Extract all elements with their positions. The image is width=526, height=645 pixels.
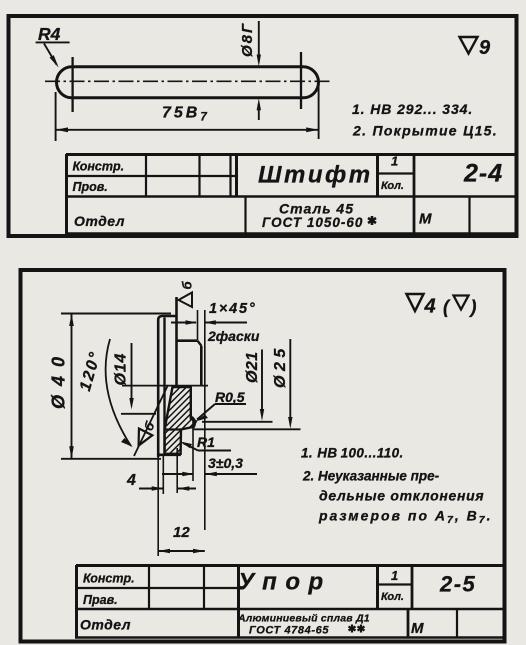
svg-text:Пров.: Пров. (73, 180, 108, 194)
dimension Ø40 (61, 313, 171, 315)
svg-text:R1: R1 (197, 434, 215, 450)
svg-text:9: 9 (479, 37, 491, 59)
dimension Ø25 (289, 339, 291, 422)
svg-text:М: М (411, 620, 424, 637)
svg-text:1. НВ 292... 334.: 1. НВ 292... 334. (352, 101, 473, 117)
svg-text:ГОСТ 4784-65: ГОСТ 4784-65 (249, 625, 329, 637)
surface finish mark ∇9 (460, 37, 478, 54)
centerline pin axis (45, 80, 330, 82)
frame drawing 2 (21, 270, 505, 642)
dimension 1×45° (197, 310, 199, 340)
svg-text:Отдел: Отдел (74, 213, 125, 229)
svg-text:Ø21: Ø21 (244, 352, 261, 383)
flange bottom edge (158, 453, 181, 456)
svg-text:Отдел: Отдел (80, 617, 131, 633)
dimension 3±0.3 (192, 420, 194, 481)
svg-text:Констр.: Констр. (73, 160, 125, 174)
svg-text:2-4: 2-4 (463, 160, 503, 188)
svg-text:2. Покрытие Ц15.: 2. Покрытие Ц15. (352, 123, 498, 139)
wire tangent line right (300, 52, 302, 109)
dimension 120° arc (106, 339, 131, 446)
svg-text:Алюминиевый сплав Д1: Алюминиевый сплав Д1 (237, 613, 370, 625)
dimension 75В7 (55, 92, 57, 141)
svg-text:1: 1 (391, 154, 398, 169)
cone surface extension line with ∇б (134, 385, 168, 456)
svg-text:1×45°: 1×45° (209, 301, 256, 317)
svg-text:1. НВ 100...110.: 1. НВ 100...110. (301, 446, 404, 461)
svg-text:1: 1 (391, 568, 398, 583)
dimension Ø21 (261, 350, 263, 415)
svg-text:ГОСТ 1050-60: ГОСТ 1050-60 (262, 215, 363, 230)
svg-text:R4: R4 (38, 24, 61, 44)
svg-text:): ) (469, 297, 477, 317)
svg-text:Прав.: Прав. (83, 593, 118, 607)
chamfer edge (198, 341, 202, 346)
frame drawing 1 (9, 16, 517, 236)
hatched section (boot shape) (165, 387, 196, 454)
part: flange silhouette left face (158, 316, 177, 457)
leader R4 (36, 42, 70, 64)
wire tangent line left (71, 57, 73, 112)
body right face (200, 346, 203, 386)
title block 2 lines (75, 565, 504, 638)
groove step edge (165, 428, 181, 430)
svg-text:размеров по А7, В7.: размеров по А7, В7. (318, 508, 492, 527)
svg-text:12: 12 (173, 524, 190, 541)
dimension 12 (158, 550, 205, 552)
svg-text:2. Неуказанные пре-: 2. Неуказанные пре- (302, 469, 440, 484)
fillet blob R0.5 (191, 417, 195, 428)
dimension 4 (157, 457, 159, 556)
part: flange inner face line (163, 318, 165, 454)
svg-text:Упор: Упор (238, 569, 332, 596)
svg-text:Штифт: Штифт (258, 162, 373, 189)
svg-text:Ø40: Ø40 (49, 348, 69, 409)
surface mark ∇б on cone line (132, 418, 158, 449)
svg-text:Кол.: Кол. (381, 180, 404, 192)
svg-text:4: 4 (424, 296, 436, 318)
surface finish mark ∇4 (∇) (407, 294, 424, 311)
svg-text:Констр.: Констр. (83, 572, 135, 586)
svg-text:Кол.: Кол. (381, 591, 404, 603)
svg-text:2фаски: 2фаски (207, 328, 260, 344)
flange right face + extension up to ∇б (175, 297, 178, 386)
dimension Ø8Г (258, 21, 260, 60)
svg-text:Ø14: Ø14 (113, 353, 130, 386)
axis line (122, 385, 208, 387)
svg-text:4: 4 (126, 472, 136, 489)
svg-text:3±0,3: 3±0,3 (208, 455, 243, 471)
svg-text:R0,5: R0,5 (215, 389, 245, 405)
svg-text:М: М (419, 211, 432, 228)
svg-text:дельные отклонения: дельные отклонения (319, 488, 484, 504)
title block 1 lines (65, 154, 517, 234)
svg-text:б: б (180, 281, 195, 290)
svg-text:Ø8Г: Ø8Г (239, 22, 256, 57)
svg-text:2-5: 2-5 (439, 572, 476, 597)
dimension Ø14 (131, 343, 133, 403)
pin body (stadium outline) (57, 67, 319, 98)
body top edge (177, 339, 198, 342)
svg-text:Ø25: Ø25 (272, 344, 289, 388)
surface mark ∇б on flange face extension (179, 293, 193, 308)
